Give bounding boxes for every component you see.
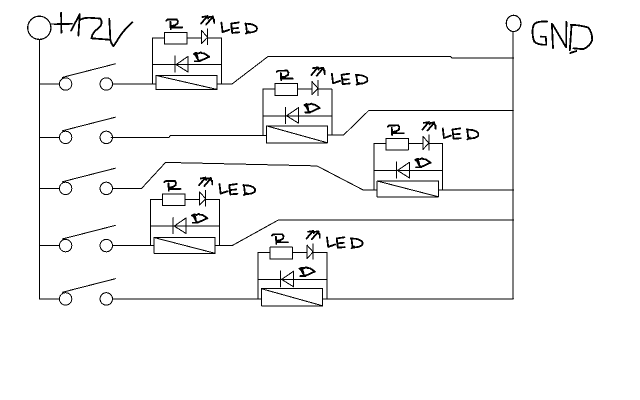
wire middle branch xyxy=(374,170,443,172)
label R of R5 xyxy=(272,234,288,244)
label LED of D4a xyxy=(220,184,255,195)
switch SW3 xyxy=(59,168,115,194)
LED arrows of D2a xyxy=(312,67,325,76)
resistor R3 xyxy=(386,138,409,150)
label R of R3 xyxy=(388,125,404,135)
relay driver block 3 xyxy=(374,122,478,197)
wire stub row 5 xyxy=(39,298,59,300)
wire SW5 to K5 xyxy=(113,298,262,300)
relay coil K2 xyxy=(266,126,327,143)
resistor R1 xyxy=(164,32,187,44)
resistor R5 xyxy=(270,247,293,259)
flyback diode D1b xyxy=(175,56,188,72)
relay coil K1 xyxy=(156,75,217,89)
wire left branch xyxy=(150,199,152,245)
label R of R4 xyxy=(164,181,180,191)
label LED of D1a xyxy=(221,23,256,34)
wire left branch xyxy=(152,38,154,84)
wire K3 to GND xyxy=(438,189,513,191)
LED D1a xyxy=(202,29,208,44)
switch SW2 xyxy=(59,117,115,143)
switch SW1 xyxy=(59,64,115,90)
label GND xyxy=(533,21,593,53)
wire top branch xyxy=(153,37,222,39)
wire SW4 to K4 xyxy=(113,245,154,247)
LED arrows of D5a xyxy=(307,231,320,240)
wire stub row 2 xyxy=(39,136,59,138)
switch SW4 xyxy=(59,225,115,251)
wire right branch xyxy=(331,89,333,135)
wire middle branch xyxy=(263,115,332,117)
flyback diode D4b xyxy=(173,218,186,234)
wire K2 to GND xyxy=(328,110,514,135)
wire right branch xyxy=(218,199,220,245)
label +12V xyxy=(55,13,133,46)
power bus wire +12V xyxy=(38,39,40,299)
relay driver block 4 xyxy=(151,178,255,254)
wire top branch xyxy=(263,88,332,90)
relay driver block 1 xyxy=(153,16,257,89)
relay coil K3 xyxy=(377,181,438,197)
LED D2a xyxy=(312,80,318,95)
LED arrows of D3a xyxy=(422,122,435,130)
wire stub row 4 xyxy=(39,245,59,247)
resistor R4 xyxy=(163,194,186,206)
terminal GND xyxy=(506,15,521,31)
wire top branch xyxy=(151,198,220,200)
wire right branch xyxy=(220,38,222,84)
wire stub row 3 xyxy=(39,187,59,189)
wire right branch xyxy=(326,253,328,299)
wire top branch xyxy=(258,252,327,254)
flyback diode D3b xyxy=(397,162,410,178)
scribble arrow of D4b xyxy=(192,214,207,223)
wire SW3 to K3 xyxy=(113,162,378,190)
wire middle branch xyxy=(151,225,220,227)
label LED of D2a xyxy=(332,74,367,85)
scribble arrow of D1b xyxy=(194,52,209,61)
relay coil K5 xyxy=(261,289,322,306)
label R of R2 xyxy=(277,71,293,81)
wire right branch xyxy=(442,144,444,190)
terminal +12V xyxy=(28,16,51,39)
scribble arrow of D5b xyxy=(300,267,315,276)
wire left branch xyxy=(257,253,259,299)
relay driver block 2 xyxy=(263,67,367,143)
wire K5 to GND xyxy=(323,298,514,300)
LED D3a xyxy=(423,135,429,150)
wire K4 to GND xyxy=(215,220,513,245)
LED arrows of D4a xyxy=(199,178,212,187)
relay coil K4 xyxy=(154,238,215,254)
ground bus wire GND xyxy=(512,31,514,298)
resistor R2 xyxy=(275,84,298,96)
LED D4a xyxy=(200,191,206,206)
label LED of D5a xyxy=(327,237,362,248)
wire left branch xyxy=(262,89,264,135)
LED D5a xyxy=(307,244,313,259)
wire stub row 1 xyxy=(39,83,59,85)
wire SW1 to K1 xyxy=(113,83,156,85)
LED arrows of D1a xyxy=(201,16,214,25)
wire K1 to GND xyxy=(217,57,514,85)
flyback diode D5b xyxy=(281,271,294,287)
scribble arrow of D3b xyxy=(415,158,430,167)
wire middle branch xyxy=(258,279,327,281)
wire top branch xyxy=(374,143,443,145)
relay driver block 5 xyxy=(258,231,362,306)
wire SW2 to K2 xyxy=(111,135,266,137)
flyback diode D2b xyxy=(286,107,299,123)
label LED of D3a xyxy=(443,128,478,139)
label R of R1 xyxy=(166,19,182,29)
scribble arrow of D2b xyxy=(304,104,319,113)
wire middle branch xyxy=(153,64,222,66)
switch SW5 xyxy=(59,279,115,305)
wire terminal tick xyxy=(51,23,60,25)
wire left branch xyxy=(373,144,375,190)
